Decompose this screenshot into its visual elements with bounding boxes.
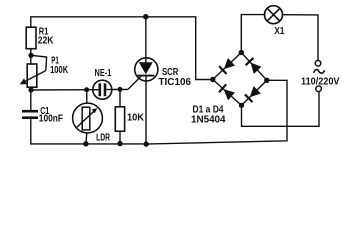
svg-text:X1: X1	[274, 26, 284, 37]
svg-text:LDR: LDR	[96, 132, 111, 143]
svg-text:22K: 22K	[38, 35, 54, 46]
svg-text:NE-1: NE-1	[95, 68, 112, 79]
svg-text:100nF: 100nF	[39, 114, 63, 125]
svg-text:100K: 100K	[50, 65, 69, 76]
svg-text:TIC106: TIC106	[159, 77, 192, 88]
svg-text:110/220V: 110/220V	[301, 77, 340, 88]
svg-text:10K: 10K	[127, 113, 145, 124]
svg-text:1N5404: 1N5404	[191, 114, 226, 125]
